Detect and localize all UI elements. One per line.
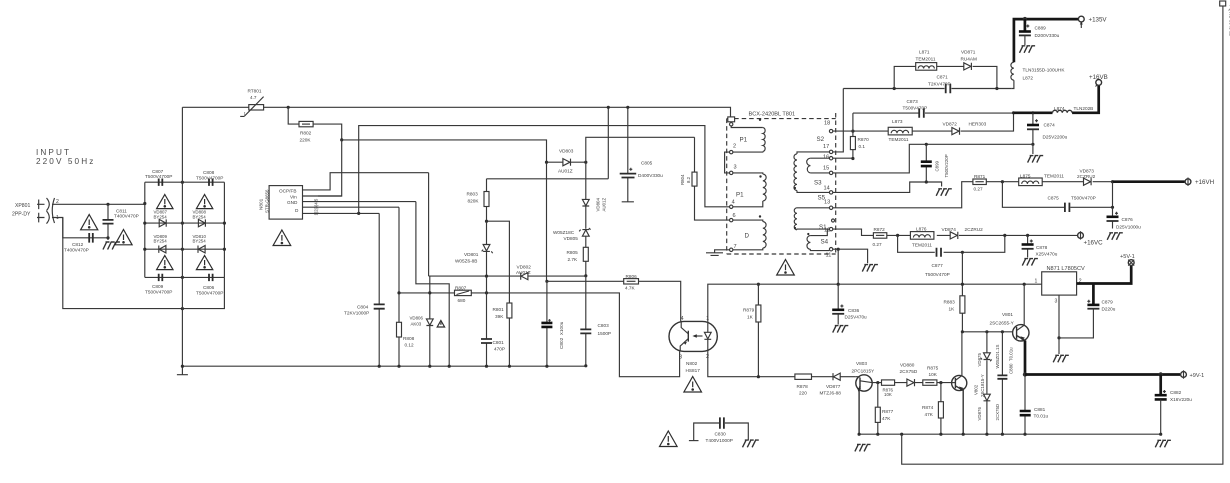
diode VD810 BY254 — [193, 234, 207, 253]
node junction C811 top — [106, 203, 109, 206]
svg-text:820K: 820K — [468, 198, 480, 203]
node pin3/C879 return — [1057, 336, 1060, 339]
terminal +5V-1 — [1120, 254, 1135, 265]
wire +16VC row — [887, 234, 1078, 236]
wire pin17 riser — [833, 89, 844, 152]
node VD873 out — [1111, 180, 1114, 183]
board edge pad — [1220, 1, 1226, 6]
svg-text:W05Z6-8B: W05Z6-8B — [455, 258, 477, 263]
svg-text:1K: 1K — [949, 307, 956, 312]
node N871 pin1 row / V801 collector — [1023, 283, 1026, 286]
svg-text:VD875: VD875 — [977, 353, 982, 367]
svg-text:AU01Z: AU01Z — [516, 270, 531, 275]
svg-text:R874: R874 — [922, 405, 934, 410]
svg-text:C874: C874 — [1044, 123, 1056, 128]
capacitor C876 D25V1000u — [1107, 207, 1142, 229]
svg-text:T500V470P: T500V470P — [1071, 196, 1096, 201]
capacitor C803 1500P — [580, 276, 611, 366]
svg-text:X25V470u: X25V470u — [1036, 252, 1058, 257]
svg-text:3: 3 — [1055, 299, 1058, 305]
svg-text:15: 15 — [823, 166, 829, 172]
svg-text:13: 13 — [824, 200, 830, 206]
svg-text:C811: C811 — [116, 208, 127, 213]
node C805 rail — [607, 106, 610, 109]
resistor R883 1K — [944, 252, 965, 331]
winding P1 upper — [731, 119, 765, 153]
svg-text:680: 680 — [458, 298, 466, 303]
svg-text:+9V-1: +9V-1 — [1190, 373, 1205, 379]
node bus/C836 — [837, 283, 840, 286]
warning triangle near C811 ground — [115, 230, 132, 245]
resistor R802 220K — [288, 107, 342, 142]
ground C836 — [833, 326, 849, 333]
wire bridge center rail — [181, 107, 183, 366]
svg-text:VD805: VD805 — [564, 236, 579, 241]
node L871 loop left — [893, 87, 896, 90]
svg-text:L874: L874 — [1054, 106, 1065, 111]
svg-text:D200V330u: D200V330u — [1035, 33, 1060, 38]
svg-text:C871: C871 — [937, 75, 949, 80]
capacitor C873 T500V470P — [903, 99, 928, 118]
svg-text:L876: L876 — [916, 226, 927, 231]
node C874 bottom — [1031, 143, 1034, 146]
inductor L876 TEM2011 — [910, 226, 934, 247]
svg-text:D400V330u: D400V330u — [638, 173, 663, 178]
svg-text:TEM2011: TEM2011 — [889, 137, 909, 142]
wire return loop to board edge — [902, 3, 1223, 464]
wire N801 pin3 staircase — [416, 202, 449, 367]
svg-text:MTZJ6-88: MTZJ6-88 — [820, 391, 842, 396]
svg-text:TLN3155D-100UHK: TLN3155D-100UHK — [1023, 68, 1066, 73]
svg-text:TEM2011: TEM2011 — [916, 56, 936, 61]
svg-text:C899: C899 — [935, 160, 940, 171]
svg-text:R878: R878 — [797, 384, 809, 389]
svg-text:+135V: +135V — [1089, 17, 1108, 24]
node VD872 riser — [1012, 111, 1015, 114]
terminal +16VH — [1185, 178, 1214, 187]
svg-text:S3: S3 — [814, 180, 822, 187]
capacitor C811 — [103, 204, 139, 240]
node pin18/R870 — [851, 130, 854, 133]
node RT801/R802 — [287, 106, 290, 109]
zener VD801 W05Z6-8B — [455, 221, 493, 275]
svg-text:R871: R871 — [974, 174, 986, 179]
T801 pin7 — [730, 244, 737, 252]
winding P1 lower — [733, 173, 766, 207]
node VD875 top — [985, 330, 988, 333]
svg-text:VD802: VD802 — [517, 264, 532, 269]
svg-text:S4: S4 — [821, 239, 829, 246]
svg-text:BY254: BY254 — [193, 239, 207, 244]
svg-text:VD873: VD873 — [1080, 168, 1095, 173]
svg-text:47K: 47K — [925, 412, 934, 417]
svg-text:T500V470P: T500V470P — [903, 106, 928, 111]
svg-text:2.7K: 2.7K — [568, 257, 579, 262]
node R803/VD801 — [485, 220, 488, 223]
inductor L875 TEM2011 — [1019, 174, 1065, 186]
svg-text:T2KV470P: T2KV470P — [928, 81, 951, 86]
zener VD805 W05Z18C — [553, 228, 591, 247]
svg-text:T500V220P: T500V220P — [944, 154, 949, 177]
wire +16VB row — [853, 112, 1014, 114]
capacitor C875 T500V470P — [1048, 196, 1096, 212]
svg-text:2: 2 — [733, 143, 736, 149]
svg-text:VD877: VD877 — [826, 384, 841, 389]
inductor L871 TEM2011 — [916, 50, 937, 71]
ground C876 — [1107, 233, 1123, 240]
svg-text:4.7: 4.7 — [250, 95, 257, 100]
resistor R801 39K — [493, 303, 512, 366]
svg-text:7: 7 — [734, 244, 737, 250]
svg-text:T400V470P: T400V470P — [64, 247, 89, 252]
node R879 bottom — [757, 375, 760, 378]
resistor R807 680 — [455, 286, 472, 303]
wire pin13 to R871 — [833, 182, 973, 208]
svg-text:2PC1815Y: 2PC1815Y — [852, 369, 876, 374]
svg-text:T500V4700P: T500V4700P — [196, 291, 223, 296]
winding S2 — [794, 136, 830, 193]
svg-text:2CX75D: 2CX75D — [995, 404, 1000, 421]
svg-text:C803: C803 — [598, 323, 610, 328]
ground for C811/C812 — [103, 242, 120, 250]
svg-text:18: 18 — [824, 121, 830, 127]
svg-text:VD801: VD801 — [464, 252, 479, 257]
diode VD874 2CZRU2 — [942, 227, 984, 239]
svg-text:INPUT: INPUT — [36, 148, 71, 157]
diode VD871 RU4AM — [961, 50, 978, 70]
svg-text:R805: R805 — [567, 250, 579, 255]
svg-text:HER303: HER303 — [969, 122, 987, 127]
svg-text:AU01Z: AU01Z — [558, 169, 573, 174]
svg-text:W05ZD1.1S: W05ZD1.1S — [995, 345, 1000, 369]
ground C899 — [936, 189, 952, 196]
wire +16VH row — [986, 181, 1111, 183]
svg-text:VD872: VD872 — [943, 122, 958, 127]
inductor L872 TLN3155D-100UHK — [1011, 62, 1065, 88]
svg-text:0.12: 0.12 — [405, 343, 415, 348]
winding S3/S5 — [794, 180, 830, 230]
IC N801 STR-G8656 — [259, 186, 319, 220]
svg-text:XP801: XP801 — [15, 203, 30, 209]
capacitor C899 T500V220P — [921, 144, 949, 182]
node R805/C803 — [584, 274, 587, 277]
svg-text:R803: R803 — [467, 192, 479, 197]
bus dots — [858, 433, 1163, 436]
node VD803 cathode — [584, 161, 587, 164]
svg-text:T400V470P: T400V470P — [114, 214, 139, 219]
svg-text:T400V1000P: T400V1000P — [706, 438, 733, 443]
svg-text:STR-G8656: STR-G8656 — [265, 189, 270, 213]
wire pin12 to R872 — [833, 229, 874, 235]
wire V801 emitter bold — [1024, 341, 1027, 375]
svg-text:R806: R806 — [626, 274, 638, 279]
node VD801/zener row — [485, 275, 488, 278]
svg-text:T500V4700P: T500V4700P — [145, 174, 172, 179]
IC N871 L7805CV — [1035, 266, 1086, 305]
connector XP801 — [12, 198, 59, 224]
node C802 top / R806 row — [545, 280, 548, 283]
capacitor C807 — [145, 169, 172, 186]
wire N801 pin2 — [303, 206, 400, 208]
wire riser to T801 pin4 — [359, 126, 730, 214]
svg-text:2SC1815-Y: 2SC1815-Y — [980, 374, 985, 397]
svg-text:C836: C836 — [848, 308, 860, 313]
svg-text:VD871: VD871 — [961, 50, 976, 55]
svg-text:TEM2011: TEM2011 — [1044, 174, 1064, 179]
resistor R808 0.12 — [397, 207, 415, 366]
diode VD872 HER303 — [943, 122, 987, 135]
node VD803 anode — [545, 161, 548, 164]
svg-text:S2: S2 — [817, 136, 825, 143]
svg-text:AU01Z: AU01Z — [602, 198, 607, 212]
svg-text:VD880: VD880 — [900, 363, 915, 368]
node R883 tap — [961, 251, 964, 254]
svg-text:C889: C889 — [1035, 25, 1047, 30]
optocoupler N802 HS817 — [669, 316, 717, 373]
resistor R877 47K — [875, 383, 893, 435]
ground stub primary — [177, 366, 188, 375]
svg-text:L871: L871 — [919, 50, 930, 55]
svg-text:2SC2655-Y: 2SC2655-Y — [990, 320, 1015, 325]
svg-text:VD874: VD874 — [942, 227, 957, 232]
inductor L873 TEM2011 — [888, 119, 912, 142]
warning triangle near C830 — [660, 431, 678, 447]
node C899 top — [925, 143, 928, 146]
winding S1/S4 inner — [807, 224, 829, 251]
wire +135V rectifier row — [843, 88, 1011, 90]
wire R803 top to C805 rail — [487, 107, 609, 179]
diode VD806 AK03 — [410, 276, 434, 366]
svg-text:220: 220 — [799, 391, 807, 396]
resistor R870 0.1 — [850, 113, 869, 159]
svg-text:4: 4 — [732, 200, 735, 206]
winding S2 inner tap — [807, 158, 830, 173]
ground at pin7 — [706, 250, 730, 256]
svg-text:L875: L875 — [1020, 174, 1031, 179]
capacitor C804 T2KV1000P — [344, 213, 385, 366]
capacitor C806 — [196, 274, 223, 296]
warning triangle near VD806 — [437, 321, 444, 328]
capacitor C809 — [145, 274, 172, 295]
node R879 top — [757, 283, 760, 286]
svg-text:V801: V801 — [1002, 312, 1013, 317]
svg-text:C808: C808 — [203, 170, 215, 175]
warning triangle near C812 — [81, 215, 98, 230]
resistor R806 4.7K — [547, 274, 681, 321]
svg-text:C801: C801 — [493, 340, 505, 345]
diode VD873 2CZRU2 — [1077, 168, 1096, 185]
svg-text:C806: C806 — [203, 285, 215, 290]
node C878 top — [1026, 234, 1029, 237]
svg-text:39K: 39K — [495, 314, 504, 319]
wire bottom loop to bridge — [63, 218, 225, 309]
node pin1/T801 riser — [357, 212, 360, 215]
svg-text:OCP/FB: OCP/FB — [279, 189, 296, 194]
svg-text:BY254: BY254 — [154, 214, 168, 219]
node C875 left riser — [1001, 180, 1004, 183]
svg-text:1500P: 1500P — [598, 331, 612, 336]
wire primary ground bus — [182, 365, 585, 367]
node V802 collector — [961, 330, 964, 333]
resistor R878 220 — [795, 374, 812, 396]
diode VD809 BY254 — [154, 234, 168, 253]
svg-text:T500V4700P: T500V4700P — [196, 175, 223, 180]
svg-text:47K: 47K — [882, 416, 891, 421]
node R874 top — [939, 381, 942, 384]
wire N801 pin5 to staircase — [303, 173, 429, 190]
capacitor C805 D400V330u — [620, 107, 663, 202]
svg-text:470P: 470P — [494, 346, 505, 351]
wire VD803 cathode to R804 — [586, 137, 695, 162]
wire N801 pin1 — [303, 212, 380, 214]
svg-text:+16VB: +16VB — [1089, 74, 1108, 81]
svg-text:T2KV1000P: T2KV1000P — [344, 311, 369, 316]
wire snubber to VD803 — [342, 140, 547, 162]
wire zener row — [429, 275, 586, 277]
svg-text:17: 17 — [823, 144, 829, 150]
svg-text:+5V-1: +5V-1 — [1120, 254, 1135, 260]
capacitor C880 T0.01u — [997, 332, 1013, 434]
svg-text:D25V1000u: D25V1000u — [1116, 225, 1141, 230]
node L871 loop right — [995, 87, 998, 90]
resistor R876 10K — [882, 380, 895, 397]
ground bus right — [1155, 440, 1171, 447]
zener VD875 W05ZD1.1S — [977, 332, 1000, 394]
svg-text:VD803: VD803 — [559, 149, 574, 154]
svg-text:T500V4700P: T500V4700P — [145, 290, 172, 295]
resistor R879 1K — [743, 284, 761, 377]
node C889 — [1023, 17, 1027, 21]
node C880 top — [1001, 330, 1004, 333]
svg-text:Vin: Vin — [290, 194, 297, 199]
node C882 — [1159, 372, 1163, 376]
svg-text:C804: C804 — [357, 304, 369, 309]
resistor R803 820K — [467, 179, 490, 221]
svg-text:R875: R875 — [927, 366, 939, 371]
resistor R875 10K — [923, 366, 939, 386]
svg-text:D25V2200u: D25V2200u — [1043, 134, 1068, 139]
wire AC live top — [52, 203, 145, 205]
svg-text:GND: GND — [287, 200, 298, 205]
capacitor C878 X25V470u — [1022, 235, 1058, 257]
capacitor C871 T2KV470P — [928, 75, 951, 94]
svg-text:C882: C882 — [1170, 390, 1182, 395]
wire V801 base row — [962, 331, 1013, 333]
node R802/VD803 line — [340, 138, 343, 141]
wire pin11 to bus — [837, 249, 839, 284]
svg-text:HS817: HS817 — [686, 368, 701, 373]
capacitor C881 T0.01u — [1020, 375, 1049, 435]
wire N801 pin4 — [303, 195, 342, 197]
svg-text:C812: C812 — [72, 242, 84, 247]
terminal +135V — [1078, 16, 1107, 28]
svg-text:RU4AM: RU4AM — [961, 56, 978, 61]
winding D — [733, 215, 766, 250]
node R883/bus — [961, 283, 964, 286]
wire pin14 staircase — [833, 182, 942, 192]
svg-text:V803: V803 — [856, 361, 867, 366]
svg-text:D: D — [745, 232, 750, 239]
node C899 bottom — [925, 180, 928, 183]
svg-text:P1: P1 — [736, 192, 744, 199]
warning triangle below T801 — [777, 260, 795, 276]
node C876 top — [1111, 206, 1114, 209]
svg-text:C809: C809 — [152, 284, 164, 289]
svg-text:W05Z18C: W05Z18C — [553, 230, 575, 235]
diode VD804 AU01Z — [582, 162, 606, 229]
capacitor C879 D220u — [1059, 284, 1116, 338]
wire pin15 staircase — [833, 144, 1033, 173]
svg-text:2CZRU2: 2CZRU2 — [1077, 174, 1096, 179]
node VD801/R807 row — [485, 291, 488, 294]
svg-text:C881: C881 — [1034, 407, 1046, 412]
svg-text:RT801: RT801 — [248, 89, 262, 94]
bus junction dots — [181, 291, 588, 368]
wire N871 pin3 — [1058, 295, 1060, 354]
diode VD876 2CX75D — [977, 394, 1000, 434]
svg-text:VD806: VD806 — [410, 316, 424, 321]
svg-text:8.2: 8.2 — [686, 176, 691, 183]
capacitor C874 D25V2200u — [1027, 113, 1068, 145]
capacitor C836 D25V470u — [832, 284, 867, 324]
wire +5V-1 bold — [1077, 266, 1132, 284]
T801 pin1 pad — [728, 117, 735, 126]
capacitor C882 X16V220u — [1155, 375, 1193, 435]
node +9V rail / C881 — [1023, 372, 1027, 376]
svg-text:16: 16 — [823, 154, 829, 160]
svg-text:R877: R877 — [882, 409, 894, 414]
resistor R872 0.27 — [873, 227, 887, 247]
T801 pin4 — [730, 200, 735, 209]
node junction C812/C811 bottom — [106, 236, 109, 239]
transistor V801 2SC2655-Y — [990, 284, 1030, 341]
svg-text:VD876: VD876 — [977, 407, 982, 421]
svg-text:R872: R872 — [874, 227, 886, 232]
terminal +16VC — [1078, 231, 1104, 246]
wire N801 pin5 staircase down — [428, 173, 430, 276]
svg-text:R801: R801 — [493, 307, 505, 312]
capacitor C830 T400V1000P — [689, 417, 759, 447]
wire R803 bottom to R801 — [487, 221, 510, 303]
node C877 left riser — [896, 234, 899, 237]
capacitor C808 — [196, 170, 223, 186]
node pin11 branch — [837, 248, 840, 251]
wire +16VH bold — [1113, 180, 1185, 183]
thermistor RT801 4.7 — [182, 89, 288, 117]
wire low-side ground bus — [859, 433, 1161, 435]
transistor V802 2SC1815-Y — [952, 332, 985, 434]
terminal +9V-1 — [1181, 370, 1205, 379]
T801 pin2 — [730, 143, 737, 154]
svg-text:VD804: VD804 — [596, 198, 601, 212]
svg-text:4: 4 — [681, 316, 684, 322]
svg-text:R870: R870 — [858, 137, 870, 142]
svg-text:TLN202B: TLN202B — [1074, 106, 1094, 111]
svg-text:V802: V802 — [974, 384, 979, 395]
diode VD880 2CX75D — [900, 363, 918, 387]
capacitor C801 470P — [481, 276, 505, 366]
node C874 top — [1031, 111, 1034, 114]
T801 pin6 — [730, 213, 736, 222]
svg-text:C876: C876 — [1122, 217, 1134, 222]
svg-text:X16V220u: X16V220u — [1170, 397, 1192, 402]
terminal +16VB — [1089, 74, 1108, 87]
svg-text:N802: N802 — [686, 361, 698, 366]
svg-text:R879: R879 — [743, 308, 755, 313]
diode VD807 BY254 — [154, 210, 168, 227]
node R877 top — [876, 381, 879, 384]
svg-text:C873: C873 — [907, 99, 919, 104]
